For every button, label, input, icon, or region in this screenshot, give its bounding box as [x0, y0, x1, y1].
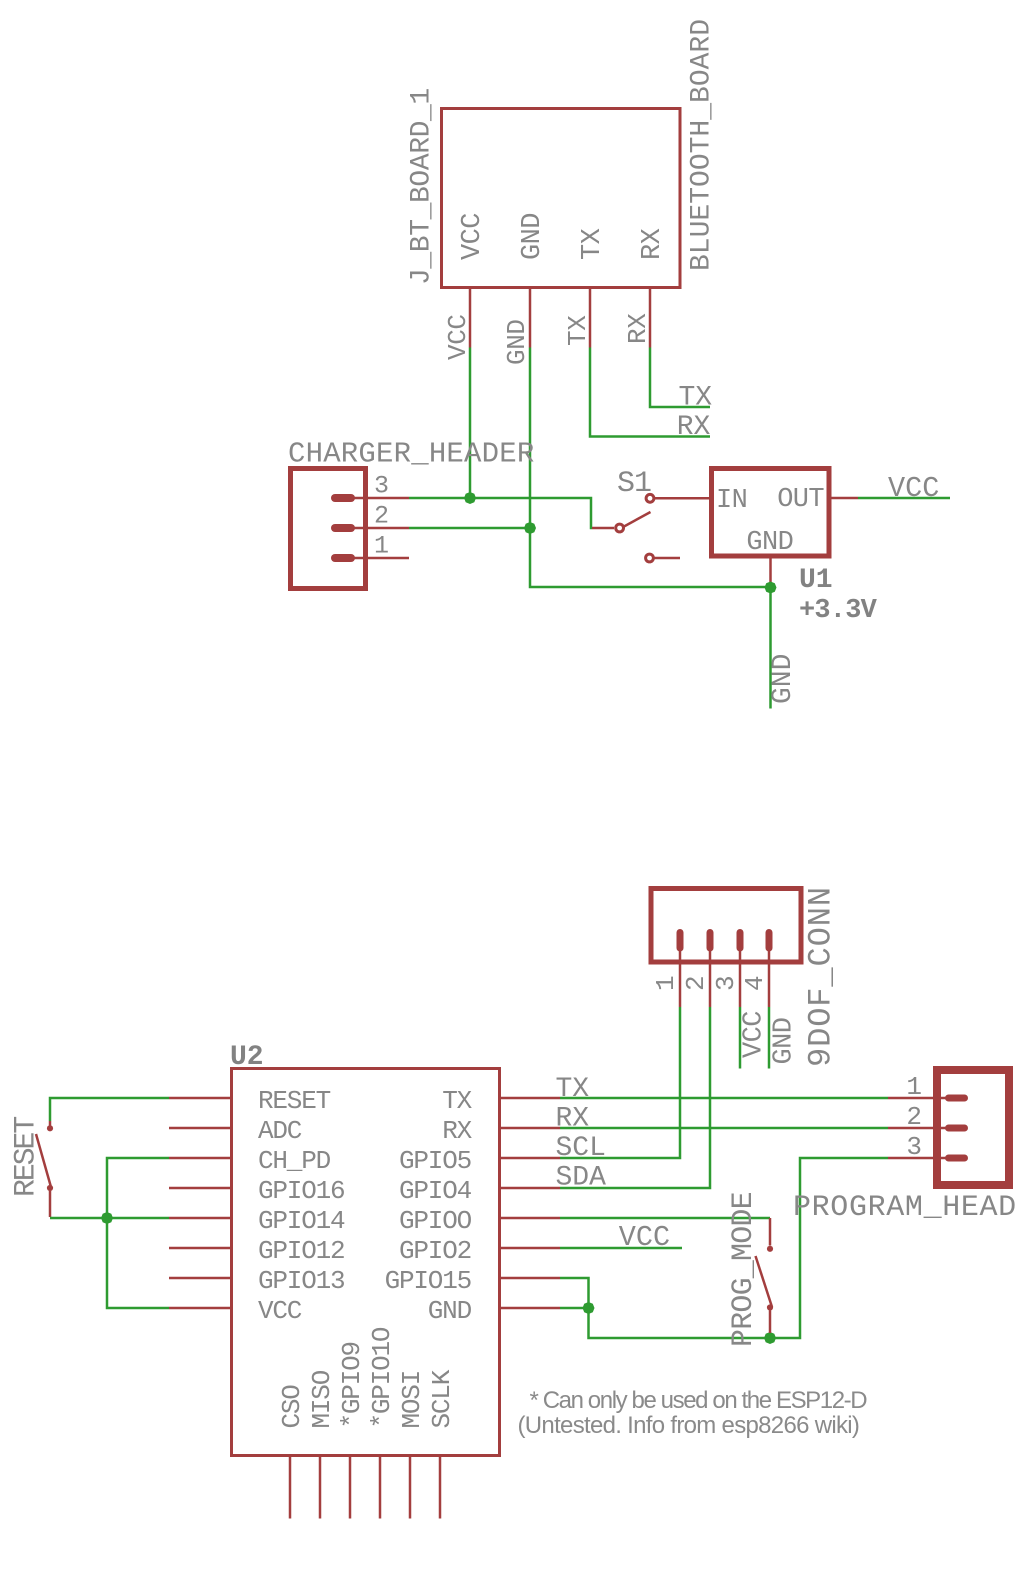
switch RESET bottom contact — [47, 1185, 53, 1191]
svg-text:CH_PD: CH_PD — [258, 1146, 331, 1176]
pin line 2 — [351, 527, 409, 530]
svg-text:3: 3 — [374, 472, 389, 501]
svg-text:1: 1 — [651, 975, 681, 991]
wire TX row — [560, 1097, 888, 1100]
svg-text:VCC: VCC — [619, 1221, 670, 1254]
switch RESET lever — [36, 1134, 51, 1186]
switch S1 bottom contact — [646, 554, 654, 562]
pin line 3 — [351, 497, 409, 500]
svg-text:BLUETOOTH_BOARD: BLUETOOTH_BOARD — [687, 19, 718, 271]
svg-text:MOSI: MOSI — [397, 1371, 427, 1429]
9dof wire pin3 VCC — [739, 1007, 742, 1069]
switch S1 common stub — [592, 527, 614, 530]
svg-text:GND: GND — [428, 1296, 472, 1326]
svg-text:*GPIO9: *GPIO9 — [337, 1342, 367, 1428]
svg-text:9DOF_CONN: 9DOF_CONN — [803, 886, 840, 1067]
pin stub TX — [589, 289, 592, 348]
svg-text:1: 1 — [906, 1072, 922, 1102]
svg-text:TX: TX — [578, 228, 608, 260]
svg-text:RX: RX — [556, 1104, 590, 1135]
switch PROG_MODE bottom stub — [769, 1311, 772, 1334]
svg-text:RESET: RESET — [10, 1117, 44, 1197]
svg-text:SCL: SCL — [556, 1133, 606, 1164]
svg-text:U1: U1 — [799, 565, 833, 596]
switch PROG_MODE lever — [756, 1256, 773, 1307]
switch RESET top contact — [47, 1125, 53, 1131]
svg-text:2: 2 — [906, 1102, 922, 1132]
svg-text:TX: TX — [442, 1086, 472, 1116]
IC U2 body — [232, 1069, 500, 1456]
svg-text:GPIO12: GPIO12 — [258, 1236, 344, 1266]
wire VCC vertical — [469, 348, 472, 499]
pin stub GND — [529, 289, 532, 348]
U2 bottom pin stubs — [290, 1457, 440, 1519]
svg-text:GND: GND — [502, 319, 532, 365]
junction RESET net — [101, 1212, 113, 1224]
9dof pill 2 — [707, 933, 714, 949]
program head stub 2 — [888, 1127, 947, 1130]
pin stub RX — [649, 289, 652, 348]
switch PROG_MODE bottom contact — [767, 1304, 773, 1310]
svg-text:SCLK: SCLK — [427, 1369, 457, 1428]
svg-text:CSO: CSO — [277, 1385, 307, 1429]
svg-text:GPIO2: GPIO2 — [399, 1236, 471, 1266]
svg-text:RX: RX — [638, 228, 668, 260]
wire SDA riser — [560, 1007, 710, 1188]
svg-text:VCC: VCC — [443, 314, 473, 360]
switch PROG_MODE top contact — [767, 1246, 773, 1252]
regulator U1 body — [712, 469, 830, 557]
9dof stub 4 — [768, 951, 771, 1007]
svg-text:CHARGER_HEADER: CHARGER_HEADER — [288, 438, 534, 471]
connector PROGRAM_HEAD body — [937, 1070, 1009, 1185]
svg-text:RX: RX — [442, 1116, 472, 1146]
9dof pill 3 — [737, 933, 744, 949]
junction GND GPIO15 — [583, 1302, 595, 1314]
svg-text:PROG_MODE: PROG_MODE — [727, 1192, 761, 1347]
svg-text:PROGRAM_HEAD: PROGRAM_HEAD — [793, 1191, 1017, 1225]
svg-text:IN: IN — [716, 486, 747, 516]
pin pill 1 — [335, 554, 351, 562]
svg-text:GPIO5: GPIO5 — [399, 1146, 471, 1176]
connector 9DOF_CONN body — [651, 889, 801, 963]
pin stub VCC — [469, 289, 472, 348]
U1 GND pin stub — [769, 558, 772, 584]
switch RESET bottom stub — [49, 1191, 52, 1217]
svg-text:3: 3 — [906, 1132, 922, 1162]
pin pill 2 — [335, 524, 351, 532]
svg-text:TX: TX — [679, 383, 713, 414]
9dof pill 1 — [677, 933, 684, 949]
svg-text:VCC: VCC — [740, 1011, 770, 1058]
svg-text:* Can only be used on the ESP1: * Can only be used on the ESP12-D — [530, 1387, 868, 1414]
program head pill 3 — [949, 1155, 965, 1162]
wire GPIO15 down — [560, 1278, 589, 1308]
pin pill 3 — [335, 494, 351, 502]
svg-text:VCC: VCC — [888, 472, 939, 505]
wire TX to RX label — [590, 348, 710, 437]
program head stub 3 — [888, 1157, 947, 1160]
U2 left pin stubs — [169, 1098, 230, 1308]
9dof pill 4 — [766, 933, 773, 949]
svg-text:U2: U2 — [230, 1042, 264, 1073]
svg-text:1: 1 — [374, 532, 389, 561]
svg-text:GPIO4: GPIO4 — [399, 1176, 472, 1206]
wire RESET bottom to GPIO14 — [50, 1217, 169, 1220]
wire GND row — [560, 1307, 589, 1310]
switch RESET top stub — [49, 1121, 52, 1126]
svg-text:GPIO16: GPIO16 — [258, 1176, 344, 1206]
9dof wire pin4 GND — [768, 1007, 771, 1069]
switch PROG_MODE top stub — [769, 1218, 772, 1246]
wire junction to CH_PD — [107, 1158, 169, 1218]
svg-text:GND: GND — [746, 528, 793, 558]
svg-text:OUT: OUT — [777, 485, 824, 515]
svg-text:*GPIO1O: *GPIO1O — [367, 1327, 397, 1428]
svg-text:3: 3 — [711, 975, 741, 991]
svg-text:MISO: MISO — [307, 1370, 337, 1428]
wire SCL riser — [560, 1007, 680, 1158]
switch S1 lever — [624, 512, 651, 527]
svg-text:TX: TX — [556, 1074, 590, 1105]
wire GND down — [769, 588, 772, 709]
U2 bottom pin names — [277, 1327, 457, 1428]
wire junction to VCC pin — [107, 1218, 169, 1308]
svg-text:RX: RX — [623, 313, 653, 344]
wire GND vertical and horizontal to U1 — [530, 348, 771, 588]
wire charger pin2 to GND net — [409, 527, 530, 530]
wire RX row — [560, 1127, 888, 1130]
svg-text:GND: GND — [768, 654, 799, 704]
svg-text:4: 4 — [740, 975, 770, 991]
svg-text:+3.3V: +3.3V — [799, 596, 878, 626]
svg-text:GND: GND — [770, 1018, 800, 1065]
junction PROG_MODE bottom — [764, 1332, 776, 1344]
svg-text:ADC: ADC — [258, 1116, 302, 1146]
junction VCC pin3 — [464, 492, 476, 504]
svg-text:VCC: VCC — [258, 1296, 302, 1326]
svg-text:GPIO13: GPIO13 — [258, 1266, 344, 1296]
svg-text:2: 2 — [681, 975, 711, 991]
U1 OUT pin stub — [829, 497, 858, 500]
program head stub 1 — [888, 1097, 947, 1100]
pin line 1 — [351, 557, 409, 560]
switch S1 top wire to U1 IN — [655, 497, 711, 500]
junction U1 GND — [765, 582, 777, 594]
9dof stub 3 — [739, 951, 742, 1007]
svg-text:TX: TX — [563, 315, 593, 346]
switch S1 top contact — [646, 494, 654, 502]
svg-text:VCC: VCC — [458, 213, 488, 260]
connector CHARGER_HEADER body — [291, 469, 366, 589]
switch S1 common contact — [616, 524, 624, 532]
connector J_BT_BOARD_1 body — [442, 109, 681, 288]
U2 left pin names — [258, 1086, 345, 1326]
wire GPIO0 to PROG_MODE — [560, 1217, 770, 1220]
9dof stub 1 — [679, 951, 682, 1007]
switch S1 bottom stub — [655, 557, 681, 560]
wire charger pin3 to switch — [409, 498, 592, 528]
U2 right pin stubs — [501, 1098, 560, 1308]
wire GPIO2 VCC — [560, 1247, 682, 1250]
program head pill 1 — [949, 1095, 965, 1102]
svg-text:GPIOO: GPIOO — [399, 1206, 472, 1236]
wire VCC out — [858, 497, 950, 500]
svg-text:RESET: RESET — [258, 1086, 331, 1116]
program head pill 2 — [949, 1125, 965, 1132]
svg-text:RX: RX — [677, 412, 711, 443]
svg-text:J_BT_BOARD_1: J_BT_BOARD_1 — [407, 88, 438, 285]
wire RX to TX label — [650, 348, 710, 408]
svg-text:GPIO15: GPIO15 — [385, 1266, 471, 1296]
wire GND to PROG_MODE and program head pin3 — [589, 1158, 889, 1338]
svg-text:GPIO14: GPIO14 — [258, 1206, 345, 1236]
U2 right pin names — [385, 1086, 473, 1326]
9dof stub 2 — [709, 951, 712, 1007]
junction GND pin2 — [524, 522, 536, 534]
wire RESET row — [50, 1098, 169, 1121]
svg-text:(Untested. Info from esp8266 w: (Untested. Info from esp8266 wiki) — [518, 1412, 860, 1439]
svg-text:2: 2 — [374, 502, 389, 531]
svg-text:GND: GND — [518, 213, 548, 260]
